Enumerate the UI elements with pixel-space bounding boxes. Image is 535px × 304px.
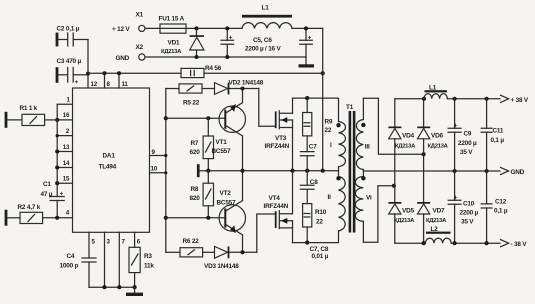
svg-text:0,1 µ: 0,1 µ (491, 137, 505, 144)
svg-text:R1 1 k: R1 1 k (20, 105, 38, 112)
svg-text:X2: X2 (136, 44, 144, 51)
svg-text:VD2 1N4148: VD2 1N4148 (229, 79, 264, 86)
svg-text:КД213А: КД213А (394, 218, 415, 224)
diode VD5 KD213A (388, 202, 401, 204)
MOSFET VT3 IRFZ44N (275, 111, 277, 128)
svg-text:9: 9 (152, 149, 156, 156)
transformer T1 primary winding II (339, 167, 346, 231)
svg-text:1000 p: 1000 p (60, 263, 79, 270)
svg-text:FU1 15 A: FU1 15 A (159, 16, 185, 23)
capacitor C11 (486, 99, 488, 171)
capacitor C2 (58, 39, 66, 41)
svg-text:35 V: 35 V (461, 219, 474, 226)
svg-text:C9: C9 (464, 131, 472, 138)
pin 7 stub (118, 232, 120, 287)
pin 15 stub (57, 182, 72, 184)
resistor R5 22 (166, 88, 179, 90)
svg-text:11k: 11k (144, 263, 154, 270)
inductor L2 output choke (425, 238, 451, 243)
svg-text:R2 4,7 k: R2 4,7 k (18, 204, 41, 211)
pin 8 stub (104, 73, 106, 88)
svg-text:VD4: VD4 (402, 133, 414, 140)
svg-text:КД213А: КД213А (161, 49, 182, 55)
capacitor C8 (306, 171, 308, 186)
inductor L1 output choke (424, 94, 447, 99)
svg-text:12: 12 (91, 81, 98, 88)
svg-text:L1: L1 (262, 5, 270, 12)
svg-text:6: 6 (137, 239, 141, 246)
svg-text:Vi: Vi (366, 195, 372, 202)
ground bar of R1 (5, 112, 8, 128)
svg-text:+: + (75, 79, 79, 86)
svg-text:C1: C1 (43, 181, 51, 188)
MOSFET VT4 IRFZ44N (275, 211, 277, 228)
pin 10 stub (150, 172, 166, 174)
resistor R4 56 (181, 68, 204, 77)
svg-text:+ 12 V: + 12 V (112, 26, 130, 33)
svg-text:R6 22: R6 22 (183, 238, 200, 245)
svg-text:C10: C10 (463, 201, 475, 208)
svg-text:0,01 µ: 0,01 µ (312, 253, 329, 260)
arrow GND output (501, 167, 509, 174)
svg-text:VD1: VD1 (168, 40, 180, 47)
capacitor C10 (454, 171, 456, 243)
svg-text:X1: X1 (136, 12, 144, 19)
capacitor C1 47u (50, 197, 64, 201)
transformer T1 secondary winding IV (355, 170, 363, 222)
pin 6 stub (134, 232, 136, 247)
svg-text:+: + (308, 34, 312, 41)
ground bar of C2 (56, 33, 59, 47)
svg-text:22: 22 (325, 127, 332, 134)
svg-text:BC557: BC557 (212, 148, 232, 155)
resistor R3 11k (129, 247, 140, 272)
wire VT4 gate feed (257, 214, 275, 252)
svg-text:C7: C7 (309, 144, 317, 151)
svg-text:VT2: VT2 (220, 190, 232, 197)
svg-text:C4: C4 (67, 253, 75, 260)
svg-text:14: 14 (63, 160, 70, 167)
svg-text:R8: R8 (191, 186, 199, 193)
wire VCC R4 line (88, 72, 323, 74)
wire secondary bottom end to VD4/VD5 node (363, 186, 394, 242)
transformer T1 secondary winding III (356, 98, 363, 169)
capacitor C12 (486, 171, 488, 243)
svg-text:+ 38 V: + 38 V (511, 97, 529, 104)
svg-text:2200 µ: 2200 µ (458, 140, 477, 147)
svg-text:КД213А: КД213А (426, 218, 447, 224)
svg-text:C7, C8: C7, C8 (310, 246, 329, 253)
svg-text:C5, C6: C5, C6 (253, 37, 272, 44)
svg-text:VD6: VD6 (431, 133, 443, 140)
resistor R6 22 (166, 251, 180, 253)
wire +12 feed down to R4 line and center line (322, 28, 324, 170)
svg-text:R9: R9 (325, 119, 333, 126)
svg-text:11: 11 (122, 81, 129, 88)
svg-text:R7: R7 (191, 140, 199, 147)
wire bottom pin bus (89, 286, 135, 288)
svg-text:C11: C11 (493, 128, 504, 135)
svg-text:2200 µ: 2200 µ (460, 210, 479, 217)
capacitor C7 (306, 136, 308, 152)
pin 3 stub (104, 232, 106, 287)
capacitor C6 (305, 28, 307, 57)
svg-text:35 V: 35 V (460, 149, 473, 156)
svg-text:0,1 µ: 0,1 µ (494, 207, 508, 214)
svg-text:C3 470 µ: C3 470 µ (57, 58, 82, 65)
svg-text:C8: C8 (310, 179, 318, 186)
transistor VT1 BC557 (219, 106, 245, 132)
svg-text:+: + (229, 34, 233, 41)
resistor R1 1k (7, 119, 22, 121)
svg-text:5: 5 (92, 239, 96, 246)
resistor R2 4,7k (7, 217, 20, 219)
wire C2/C3 vertical to VCC line (87, 40, 89, 89)
svg-text:4: 4 (66, 209, 70, 216)
svg-text:+: + (454, 195, 458, 202)
svg-text:КД213А: КД213А (428, 143, 449, 149)
svg-text:TL494: TL494 (99, 164, 117, 171)
svg-text:10: 10 (151, 165, 158, 172)
svg-text:R4 56: R4 56 (205, 65, 222, 72)
pin 16 stub (57, 119, 72, 121)
wire -38V rail (395, 242, 426, 244)
svg-text:R3: R3 (144, 253, 152, 260)
svg-text:BC557: BC557 (217, 200, 237, 207)
resistor R9 22 (snubber) (306, 98, 308, 112)
svg-text:620: 620 (190, 149, 201, 156)
wire GND output rail (363, 170, 500, 172)
svg-text:47 µ: 47 µ (41, 191, 53, 198)
svg-text:R5 22: R5 22 (183, 100, 200, 107)
wire +38V rail (395, 98, 424, 100)
pin 5 stub with C4 (88, 232, 90, 258)
svg-text:820: 820 (190, 195, 201, 202)
IC DA1 TL494 (73, 88, 150, 232)
svg-text:7: 7 (122, 239, 126, 246)
svg-text:15: 15 (63, 176, 70, 183)
wire secondary top end to VD6/VD7 node (363, 98, 423, 154)
diode VD2 1N4148 (202, 88, 215, 90)
svg-text:R10: R10 (315, 209, 327, 216)
svg-text:+: + (454, 123, 458, 130)
svg-text:III: III (365, 144, 370, 151)
pin 14 stub (57, 167, 72, 169)
capacitor C3 (58, 74, 66, 76)
node junction on +12 rail at VD1 (194, 26, 198, 30)
capacitor C4 1000p (82, 258, 96, 262)
pin 9 stub (150, 155, 166, 157)
svg-text:VT1: VT1 (216, 139, 228, 146)
svg-text:VD5: VD5 (402, 208, 414, 215)
ground symbol bottom (134, 287, 136, 292)
wire VT1 base line (166, 117, 225, 119)
resistor R10 22 (snubber) (303, 204, 312, 227)
pin 1 stub (57, 103, 72, 105)
capacitor C9 (454, 99, 456, 171)
resistor R7 620 (207, 118, 209, 136)
terminal X1 (139, 25, 145, 31)
pin 4 stub (43, 217, 73, 219)
svg-text:VT4: VT4 (269, 195, 281, 202)
wire VT3 drain line to primary top (293, 98, 339, 121)
wire VT2 base line (166, 217, 225, 219)
wire rail after L1 (292, 27, 323, 29)
svg-text:L2: L2 (431, 226, 439, 233)
diode VD3 1N4148 (203, 251, 215, 253)
svg-text:8: 8 (107, 81, 111, 88)
svg-text:VD3 1N4148: VD3 1N4148 (204, 263, 239, 270)
svg-text:IRFZ44N: IRFZ44N (265, 143, 290, 150)
svg-text:VT3: VT3 (275, 135, 287, 142)
resistor R8 820 (203, 183, 213, 206)
svg-text:КД213А: КД213А (395, 143, 416, 149)
wire primary bottom bus (293, 231, 339, 243)
terminal X2 (139, 54, 145, 60)
svg-text:II: II (328, 194, 332, 201)
diode VD6 KD213A (423, 99, 425, 127)
svg-text:16: 16 (63, 112, 70, 119)
transformer T1 core (349, 111, 352, 233)
arrow +38V output (501, 95, 509, 102)
svg-text:T1: T1 (346, 104, 354, 111)
wire VT3 gate feed (259, 89, 275, 127)
svg-text:- 38 V: - 38 V (511, 241, 528, 248)
wire center emitter line to transformer tap (200, 170, 339, 172)
svg-text:C2 0,1 µ: C2 0,1 µ (57, 26, 80, 33)
pin 11 stub (118, 73, 120, 88)
svg-text:+: + (60, 191, 64, 198)
ground symbol below C6 (305, 57, 307, 64)
wire left pin bus (56, 104, 58, 196)
wire +12V input rail (145, 27, 242, 29)
svg-text:13: 13 (63, 144, 70, 151)
ground bar of C3 (56, 67, 59, 83)
diode VD4 KD213A (394, 99, 396, 127)
fuse FU1 15 A (160, 24, 186, 33)
inductor L1 (input filter) (242, 23, 292, 29)
diode VD1 KD213A (196, 28, 198, 35)
capacitor C5 (226, 28, 228, 57)
wire GND input rail (145, 56, 306, 58)
svg-text:VD7: VD7 (433, 208, 445, 215)
svg-text:2200 µ / 16 V: 2200 µ / 16 V (245, 46, 281, 53)
svg-text:L1: L1 (429, 85, 437, 92)
svg-text:DA1: DA1 (103, 153, 116, 160)
svg-text:3: 3 (107, 239, 111, 246)
wire driver left bus (165, 89, 167, 253)
svg-text:IRFZ44N: IRFZ44N (264, 203, 289, 210)
wire VT1/VT2 collector bus (242, 136, 244, 201)
ground bar of R2 (5, 210, 8, 226)
svg-text:I: I (330, 142, 332, 149)
pin 13 stub (57, 151, 72, 153)
pin 2 stub (57, 135, 72, 137)
svg-text:GND: GND (511, 169, 525, 176)
diode VD7 KD213A (417, 202, 430, 204)
transistor VT2 BC557 (219, 205, 245, 231)
svg-text:1: 1 (67, 96, 71, 103)
svg-text:2: 2 (66, 128, 70, 135)
chassis bar on center line (197, 164, 200, 177)
svg-text:22: 22 (316, 219, 323, 226)
transformer T1 primary winding I (339, 122, 346, 167)
svg-text:C12: C12 (495, 198, 507, 205)
svg-text:GND: GND (116, 55, 130, 62)
arrow -38V output (501, 240, 509, 247)
